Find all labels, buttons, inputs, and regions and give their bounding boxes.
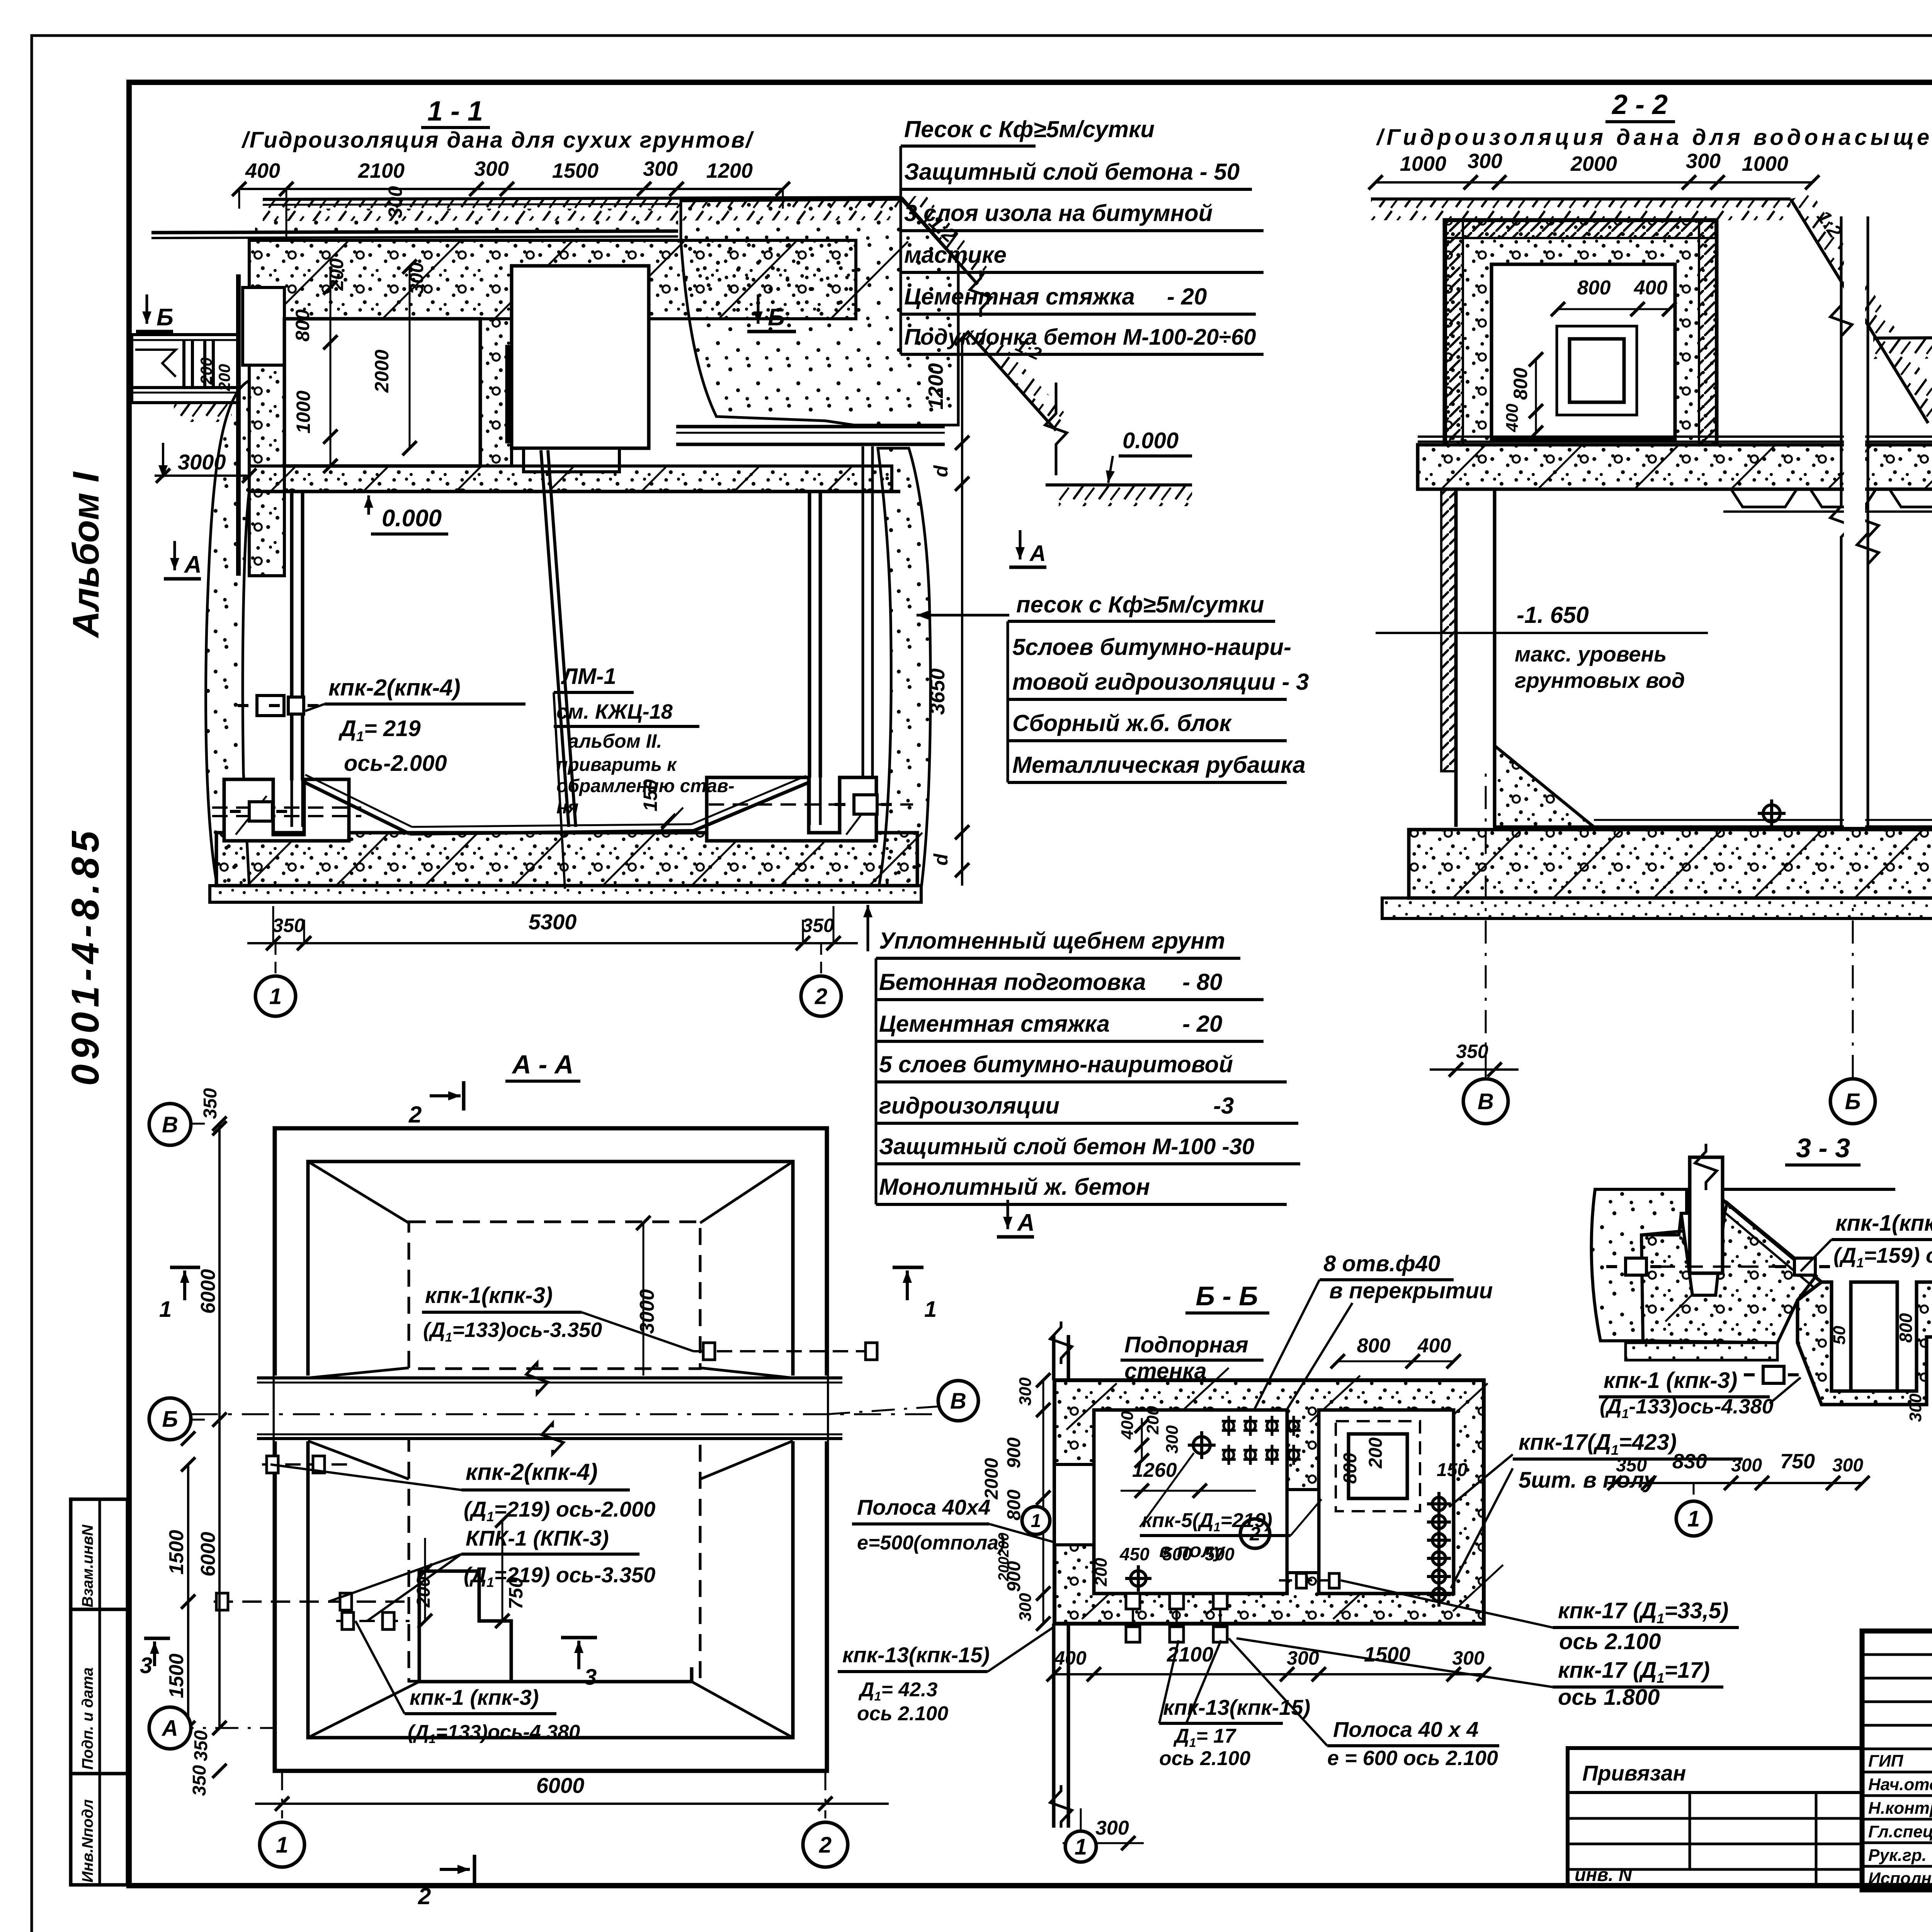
svg-text:150: 150	[1437, 1460, 1468, 1480]
section 2-2 tank left wall	[1454, 489, 1458, 827]
svg-text:Бетонная подготовка: Бетонная подготовка	[879, 969, 1146, 995]
svg-text:300: 300	[1163, 1425, 1182, 1454]
section 2-2 slope 1:2	[1791, 199, 1928, 423]
svg-text:350: 350	[200, 1088, 221, 1119]
svg-text:кпк-1 (кпк-3): кпк-1 (кпк-3)	[410, 1685, 539, 1709]
svg-text:Подп. и дата: Подп. и дата	[79, 1667, 96, 1770]
svg-text:макс. уровень: макс. уровень	[1515, 642, 1667, 666]
svg-text:300: 300	[1016, 1593, 1035, 1621]
svg-text:3000: 3000	[636, 1289, 658, 1334]
svg-text:е=500(отпола): е=500(отпола)	[857, 1532, 1005, 1554]
section 1-1 excavation slope 1:2	[901, 197, 978, 284]
section 3-3 earth mass	[1592, 1189, 1687, 1341]
svg-text:В: В	[950, 1388, 966, 1413]
marker А right lower	[1007, 1200, 1009, 1229]
axis circle 2 (Б-Б)	[1240, 1519, 1270, 1548]
section 1-1 waterproofing lines over slab	[151, 231, 678, 233]
svg-text:300: 300	[1468, 150, 1502, 173]
section 2-2 vent shaft square	[1557, 326, 1637, 415]
section 1-1 top dimension chain	[239, 188, 783, 190]
marker А right of 1-1	[1019, 530, 1022, 560]
section 3-3 haunch slope	[1723, 1200, 1821, 1282]
svg-text:3 слоя изола на битумной: 3 слоя изола на битумной	[904, 200, 1213, 226]
svg-text:3 - 3: 3 - 3	[1796, 1133, 1850, 1163]
svg-text:900: 900	[1004, 1437, 1024, 1468]
title block	[1862, 1631, 1932, 1890]
svg-text:350: 350	[1456, 1041, 1488, 1062]
Б-Б left wall opening	[1054, 1464, 1094, 1545]
section 2-2 top dimension chain	[1376, 181, 1812, 184]
svg-text:d: d	[930, 465, 952, 477]
svg-text:200: 200	[326, 258, 347, 291]
svg-text:200: 200	[1366, 1437, 1386, 1469]
Б-Б left dims	[1043, 1380, 1044, 1624]
plan outer wall	[275, 1128, 827, 1771]
svg-text:Б: Б	[156, 304, 173, 331]
plan sump outline	[419, 1571, 511, 1682]
section 3-3 vertical wall	[1690, 1157, 1723, 1273]
svg-text:800: 800	[1357, 1335, 1391, 1357]
section 2-2 ribbed panels	[1731, 489, 1797, 507]
marker А left	[173, 541, 176, 570]
section 2-2 vent dims	[1558, 308, 1669, 310]
svg-text:1500: 1500	[552, 159, 599, 182]
svg-text:d: d	[930, 853, 952, 866]
svg-text:кпк-13(кпк-15): кпк-13(кпк-15)	[1163, 1695, 1310, 1719]
svg-text:300: 300	[643, 157, 678, 180]
Б-Б bottom dims	[1054, 1673, 1484, 1675]
section 1-1 base line 0.000	[263, 490, 900, 493]
section 2-2 bottom dims	[1430, 1068, 1519, 1071]
axis circle В (2-2)	[1463, 1079, 1508, 1124]
Б-Б right room	[1319, 1410, 1454, 1594]
plan middle joint strip	[275, 1376, 827, 1441]
Б-Б outer walls	[1054, 1380, 1484, 1624]
svg-text:5300: 5300	[529, 910, 577, 934]
svg-text:450: 450	[1119, 1544, 1150, 1564]
svg-text:кпк-2(кпк-4): кпк-2(кпк-4)	[466, 1459, 598, 1485]
middle excavation slope	[967, 331, 1056, 430]
svg-text:А: А	[1029, 541, 1046, 566]
plan section mark 2 top	[462, 1081, 466, 1111]
section 3-3 top line	[1595, 1188, 1690, 1191]
svg-text:0901-4-8.85: 0901-4-8.85	[64, 827, 107, 1086]
svg-text:2000: 2000	[371, 350, 393, 393]
svg-text:350: 350	[189, 1765, 210, 1796]
svg-text:Д1= 42.3: Д1= 42.3	[858, 1679, 937, 1703]
svg-text:300: 300	[1906, 1393, 1925, 1422]
plan inner wall	[308, 1162, 793, 1738]
svg-text:- 80: - 80	[1182, 969, 1222, 995]
svg-text:Б: Б	[768, 304, 785, 331]
section 1-1 pedestal below right room	[524, 448, 619, 472]
svg-text:ГИП: ГИП	[1868, 1752, 1904, 1770]
section 1-1 lower left earth mass	[206, 381, 249, 886]
svg-text:6000: 6000	[197, 1269, 219, 1314]
svg-text:1000: 1000	[1742, 152, 1788, 175]
svg-text:Подуклонка бетон М-100-20÷60: Подуклонка бетон М-100-20÷60	[904, 325, 1256, 350]
section 1-1 right wall footing	[707, 777, 876, 841]
svg-text:800: 800	[1896, 1313, 1916, 1343]
section 1-1 ledge slab right (-1.200)	[676, 425, 945, 429]
svg-text:350: 350	[802, 915, 834, 936]
svg-text:- 20: - 20	[1167, 284, 1207, 310]
section 3-3 flanges	[1606, 1258, 1666, 1275]
axis circle 1 (section 1-1)	[255, 976, 296, 1016]
Б-Б vent dashed square	[1336, 1421, 1420, 1511]
section 2-2 right ground	[1873, 335, 1932, 338]
plan flange left mid	[214, 1600, 410, 1603]
axis circle 1 (plan)	[260, 1822, 304, 1867]
axis circle 1 (Б-Б left)	[1022, 1507, 1050, 1534]
svg-text:400: 400	[1417, 1335, 1451, 1357]
svg-text:А: А	[161, 1716, 178, 1741]
section 1-1 left wall	[249, 365, 284, 576]
svg-text:ось-2.000: ось-2.000	[344, 751, 447, 776]
svg-text:1: 1	[1031, 1511, 1041, 1531]
svg-text:1 - 1: 1 - 1	[427, 96, 483, 127]
svg-text:300: 300	[1016, 1377, 1035, 1406]
svg-text:в перекрытии: в перекрытии	[1329, 1278, 1493, 1303]
svg-text:ось 1.800: ось 1.800	[1558, 1685, 1660, 1710]
svg-text:830: 830	[1672, 1450, 1707, 1473]
plan dashed opening lower half	[409, 1439, 700, 1681]
plan left dim chains	[218, 1124, 221, 1728]
svg-text:кпк-2(кпк-4): кпк-2(кпк-4)	[328, 675, 461, 701]
plan axis circle В right	[938, 1381, 978, 1421]
svg-text:400: 400	[1054, 1647, 1087, 1669]
svg-text:0.000: 0.000	[1122, 428, 1179, 453]
svg-text:1500: 1500	[165, 1530, 188, 1575]
svg-text:3000: 3000	[178, 450, 226, 474]
svg-text:кпк-5(Д1=219): кпк-5(Д1=219)	[1142, 1509, 1272, 1534]
svg-text:2: 2	[418, 1883, 431, 1909]
section 2-2 survey mark	[1758, 799, 1786, 827]
svg-text:200: 200	[197, 357, 215, 385]
svg-text:1000: 1000	[293, 391, 314, 434]
svg-text:грунтовых вод: грунтовых вод	[1515, 668, 1685, 692]
svg-text:1: 1	[1687, 1506, 1700, 1531]
section 1-1 tank right wall	[808, 492, 811, 777]
top margin line	[32, 34, 1932, 37]
section 3-3 wall groove	[1681, 1213, 1725, 1295]
section 1-1 tank floor	[303, 781, 410, 834]
section 1-1 base preparation layer	[210, 886, 921, 902]
svg-text:кпк-17(Д1=423): кпк-17(Д1=423)	[1519, 1430, 1677, 1458]
Б-Б mid bottom flange	[1279, 1579, 1337, 1582]
section 1-1 lower right earth mass	[878, 448, 930, 886]
svg-text:гидроизоляции: гидроизоляции	[879, 1093, 1060, 1119]
svg-text:ось 2.100: ось 2.100	[857, 1702, 948, 1725]
svg-text:Н.контр.: Н.контр.	[1868, 1799, 1932, 1818]
svg-text:800: 800	[1340, 1453, 1361, 1484]
plan 3 marker left	[144, 1637, 170, 1640]
svg-text:КПК-1 (КПК-3): КПК-1 (КПК-3)	[466, 1526, 609, 1550]
svg-text:В: В	[162, 1112, 178, 1137]
axis circle 1 (Б-Б bottom)	[1065, 1831, 1096, 1862]
plan 1 marker right	[893, 1266, 923, 1269]
svg-text:Б: Б	[162, 1406, 178, 1432]
svg-text:в полу: в полу	[1159, 1539, 1226, 1562]
Б-Б retaining wall down	[1052, 1624, 1056, 1828]
section 1-1 tank left wall	[290, 492, 294, 781]
Б-Б left room	[1094, 1410, 1287, 1594]
plan flange right top	[694, 1350, 874, 1352]
svg-text:Взам.инвN: Взам.инвN	[79, 1524, 96, 1607]
svg-text:5слоев битумно-наири-: 5слоев битумно-наири-	[1012, 634, 1291, 660]
svg-text:800: 800	[292, 309, 313, 342]
svg-text:/Гидроизоляция дана для водона: /Гидроизоляция дана для водонасыщенных г…	[1376, 125, 1932, 150]
section 1-1 left wall footing	[224, 779, 349, 841]
svg-text:Рук.гр.: Рук.гр.	[1868, 1846, 1927, 1865]
svg-text:Б: Б	[1845, 1089, 1861, 1114]
section 3-3 water line dashes	[1629, 1265, 1808, 1268]
svg-text:300: 300	[1095, 1817, 1129, 1839]
section 1-1 ladder LM-1	[541, 450, 569, 827]
section 1-1 ground surface with hatch	[263, 197, 901, 199]
svg-text:Инв.Nподл: Инв.Nподл	[79, 1799, 96, 1883]
section 1-1 bottom slab	[216, 833, 917, 886]
svg-text:кпк-17 (Д1=33,5): кпк-17 (Д1=33,5)	[1558, 1598, 1728, 1626]
section 1-1 backfill band over slab	[255, 209, 678, 233]
plan axis circles left	[149, 1104, 191, 1145]
svg-text:песок с Кф≥5м/сутки: песок с Кф≥5м/сутки	[1016, 592, 1264, 617]
svg-text:Подпорная: Подпорная	[1124, 1332, 1248, 1357]
plan section mark 2 bottom	[473, 1855, 476, 1884]
Б-Б retaining wall up	[1052, 1335, 1056, 1380]
section 2-2 roof slab	[1418, 445, 1932, 489]
svg-text:Сборный ж.б. блок: Сборный ж.б. блок	[1012, 710, 1232, 736]
plan floor diagonals lower	[308, 1441, 409, 1479]
svg-text:2000: 2000	[981, 1458, 1002, 1500]
section 2-2 headhouse interior	[1492, 264, 1675, 439]
svg-text:300: 300	[474, 157, 509, 180]
svg-text:2: 2	[408, 1102, 422, 1128]
svg-text:50: 50	[1830, 1326, 1849, 1345]
svg-text:8 отв.ф40: 8 отв.ф40	[1323, 1251, 1440, 1276]
section 1-1 top slab (concrete)	[249, 240, 856, 319]
svg-text:1: 1	[269, 984, 282, 1009]
section 1-1 tank wall stubs into footing	[291, 781, 293, 827]
svg-text:2 - 2: 2 - 2	[1611, 89, 1668, 120]
section 1-1 right room	[512, 266, 649, 448]
section 1-1 pipe КПК-2 left wall	[238, 696, 303, 716]
svg-text:обрамлению став-: обрамлению став-	[556, 776, 735, 796]
svg-text:кпк-1(кпк-3): кпк-1(кпк-3)	[1835, 1211, 1932, 1236]
Б-Б floor anchors	[1188, 1431, 1216, 1459]
plan 1 marker top	[170, 1266, 200, 1269]
svg-text:1: 1	[924, 1297, 937, 1322]
svg-text:300: 300	[384, 186, 406, 218]
svg-text:200: 200	[1092, 1558, 1111, 1587]
svg-text:Д1= 219: Д1= 219	[338, 716, 421, 744]
svg-text:Металлическая рубашка: Металлическая рубашка	[1012, 752, 1306, 778]
svg-text:400: 400	[245, 159, 280, 182]
svg-text:Цементная стяжка: Цементная стяжка	[879, 1011, 1110, 1037]
section 1-1 lower pipes dashed	[212, 806, 361, 809]
section 2-2 base layer	[1382, 898, 1932, 918]
svg-text:В: В	[1478, 1089, 1494, 1114]
Б-Б middle doorway	[1287, 1490, 1319, 1573]
svg-text:2: 2	[815, 984, 827, 1009]
bottom dim 1-1	[247, 942, 858, 944]
svg-text:400: 400	[1634, 277, 1668, 299]
svg-text:кпк-1(кпк-3): кпк-1(кпк-3)	[425, 1283, 553, 1308]
svg-text:Д1= 17: Д1= 17	[1173, 1725, 1236, 1750]
svg-text:А - А: А - А	[512, 1050, 574, 1079]
plan axis Б dashdot	[191, 1413, 935, 1415]
svg-text:300: 300	[1832, 1455, 1863, 1476]
svg-text:Привязан: Привязан	[1582, 1761, 1686, 1785]
svg-text:Уплотненный щебнем грунт: Уплотненный щебнем грунт	[879, 928, 1225, 954]
svg-text:Исполн.: Исполн.	[1868, 1869, 1932, 1888]
section 1-1 doorway opening left	[243, 287, 284, 365]
svg-text:2100: 2100	[358, 159, 405, 182]
0.000 mark section 1-1	[367, 495, 370, 515]
section 1-1 left room	[284, 319, 480, 466]
svg-text:1: 1	[276, 1832, 288, 1857]
Б-Б hole symbols	[1222, 1416, 1236, 1436]
plan roof diagonals upper	[308, 1162, 409, 1223]
svg-text:300: 300	[1686, 150, 1721, 173]
section 2-2 break lines	[1830, 216, 1852, 827]
svg-text:ось 2.100: ось 2.100	[1159, 1747, 1250, 1770]
svg-text:кпк-1 (кпк-3): кпк-1 (кпк-3)	[1604, 1368, 1737, 1393]
Б-Б bottom clip symbols	[1126, 1594, 1140, 1609]
plan 3 marker inside	[561, 1636, 597, 1639]
svg-text:Цементная стяжка: Цементная стяжка	[904, 284, 1135, 310]
section 2-2 left ground	[1371, 197, 1791, 201]
svg-text:приварить к: приварить к	[556, 755, 677, 775]
svg-text:1200: 1200	[924, 363, 947, 410]
svg-text:кпк-13(кпк-15): кпк-13(кпк-15)	[842, 1643, 990, 1667]
svg-text:-1. 650: -1. 650	[1517, 602, 1589, 628]
svg-text:3: 3	[584, 1665, 597, 1690]
section 2-2 floor haunches	[1495, 746, 1594, 827]
axis circle 2 (section 1-1)	[801, 976, 841, 1016]
section 3-3 concrete block	[1641, 1203, 1816, 1343]
svg-text:Песок с Кф≥5м/сутки: Песок с Кф≥5м/сутки	[904, 116, 1155, 142]
svg-text:400: 400	[1118, 1411, 1137, 1440]
svg-text:Гл.спец.: Гл.спец.	[1868, 1822, 1932, 1841]
svg-text:см. КЖЦ-18: см. КЖЦ-18	[556, 700, 673, 723]
Б-Б kpk-17 column	[1427, 1492, 1451, 1516]
axis circle 2 (plan)	[803, 1822, 848, 1867]
left margin stamp boxes	[71, 1499, 128, 1609]
svg-text:3: 3	[140, 1653, 152, 1678]
svg-text:6000: 6000	[536, 1773, 585, 1798]
axis circle 1 (3-3)	[1676, 1501, 1711, 1536]
svg-text:/Гидроизоляция дана для сухих: /Гидроизоляция дана для сухих грунтов/	[241, 128, 754, 153]
svg-text:мастике: мастике	[904, 242, 1007, 268]
Б-Б top dims	[1338, 1361, 1454, 1362]
ladder platform outside left	[132, 333, 236, 336]
svg-text:800: 800	[1510, 367, 1531, 400]
section 2-2 headhouse walls	[1444, 220, 1717, 445]
svg-text:кпк-17 (Д1=17): кпк-17 (Д1=17)	[1558, 1658, 1710, 1686]
axis circle Б (2-2)	[1830, 1079, 1875, 1124]
svg-text:Полоса 40х4: Полоса 40х4	[857, 1495, 990, 1519]
svg-text:(Д1=159) ось-3.350: (Д1=159) ось-3.350	[1833, 1243, 1932, 1270]
svg-text:1: 1	[159, 1297, 172, 1322]
svg-text:Монолитный ж. бетон: Монолитный ж. бетон	[879, 1174, 1150, 1200]
svg-text:1200: 1200	[706, 159, 753, 182]
section 1-1 foundation band	[249, 466, 892, 492]
section 3-3 dims	[1607, 1482, 1862, 1484]
svg-text:5 слоев битумно-наиритовой: 5 слоев битумно-наиритовой	[879, 1051, 1233, 1077]
svg-text:350: 350	[191, 1730, 211, 1761]
svg-text:товой гидроизоляции - 3: товой гидроизоляции - 3	[1012, 669, 1309, 695]
middle ground line 0.000	[1046, 483, 1192, 486]
svg-text:Защитный слой бетона - 50: Защитный слой бетона - 50	[904, 159, 1240, 185]
svg-text:-3: -3	[1213, 1093, 1234, 1119]
svg-text:А: А	[184, 551, 202, 578]
vertical dim chain x2490	[961, 338, 963, 886]
svg-text:1500: 1500	[165, 1653, 188, 1698]
section 1-1 right earth mass	[681, 199, 958, 425]
svg-text:A: A	[1017, 1209, 1035, 1236]
svg-text:400: 400	[1503, 403, 1522, 432]
svg-text:1: 1	[1075, 1834, 1087, 1859]
svg-text:Защитный слой бетон М-100 -30: Защитный слой бетон М-100 -30	[879, 1134, 1254, 1159]
svg-text:инв. N: инв. N	[1575, 1865, 1633, 1885]
svg-text:750: 750	[1780, 1450, 1815, 1473]
svg-text:Полоса 40 х 4: Полоса 40 х 4	[1333, 1717, 1478, 1742]
plan flange left top	[262, 1463, 348, 1466]
svg-text:ЛМ-1: ЛМ-1	[561, 664, 616, 689]
svg-text:800: 800	[1577, 277, 1611, 299]
svg-text:6000: 6000	[197, 1532, 219, 1577]
svg-text:- 20: - 20	[1182, 1011, 1222, 1037]
svg-text:альбом II.: альбом II.	[568, 730, 662, 752]
section 3-3 bottom strip	[1626, 1343, 1777, 1360]
svg-text:Нач.отд.: Нач.отд.	[1868, 1775, 1932, 1794]
svg-text:ось 2.100: ось 2.100	[1559, 1629, 1661, 1654]
plan bottom dim 6000	[255, 1803, 889, 1805]
section 2-2 bottom slab	[1409, 830, 1932, 898]
section 1-1 protective wall right	[862, 446, 864, 777]
privyazan box	[1568, 1748, 1862, 1885]
svg-text:2: 2	[819, 1832, 832, 1857]
svg-text:Альбом I: Альбом I	[65, 471, 107, 638]
section 3-3 sump	[1798, 1282, 1932, 1405]
svg-text:3650: 3650	[926, 668, 949, 715]
svg-text:300: 300	[1452, 1647, 1485, 1669]
plan dashed opening upper	[409, 1222, 700, 1369]
marker Б left	[146, 294, 148, 324]
svg-text:5шт. в полу: 5шт. в полу	[1519, 1468, 1657, 1493]
svg-text:200: 200	[215, 364, 233, 391]
svg-text:350: 350	[272, 915, 305, 936]
marker Б right	[757, 294, 760, 324]
svg-text:0.000: 0.000	[382, 505, 442, 532]
svg-text:е = 600 ось 2.100: е = 600 ось 2.100	[1327, 1747, 1498, 1770]
section 2-2 axis lines	[1485, 773, 1487, 1078]
svg-text:Б - Б: Б - Б	[1196, 1281, 1258, 1311]
svg-text:1000: 1000	[1400, 152, 1446, 175]
section 1-1 middle pier	[480, 319, 512, 466]
svg-text:2000: 2000	[1570, 152, 1617, 175]
section 1-1 hatch door leaf	[506, 346, 512, 442]
section 3-3 sump interior	[1851, 1282, 1897, 1391]
svg-text:200: 200	[996, 1557, 1012, 1582]
